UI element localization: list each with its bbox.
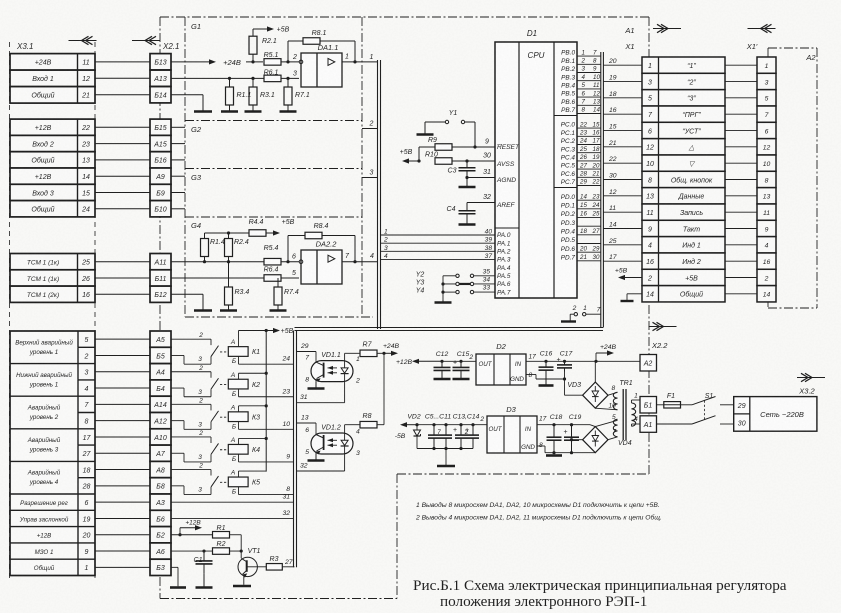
wire VD3 plus [594, 361, 596, 382]
wire VD4 ac1 pin 5 [595, 414, 617, 427]
svg-text:17: 17 [609, 254, 617, 261]
svg-text:1: 1 [634, 393, 638, 400]
node feedback junction G1 [286, 60, 289, 63]
wire 29 to VD1.1 [297, 343, 317, 361]
relay К2 contact switch [171, 365, 228, 397]
svg-text:Общий: Общий [34, 565, 55, 572]
relay К1 coil [228, 339, 260, 365]
node R2.4 bottom [227, 260, 230, 263]
svg-text:9: 9 [765, 226, 769, 233]
svg-text:29: 29 [592, 245, 600, 252]
svg-text:IN: IN [525, 426, 532, 433]
svg-text:уровень 1: уровень 1 [29, 381, 58, 388]
svg-text:А5: А5 [155, 337, 165, 344]
svg-text:D1: D1 [527, 29, 537, 38]
svg-text:R8.1: R8.1 [312, 30, 327, 37]
svg-text:22: 22 [81, 125, 90, 132]
svg-text:11: 11 [763, 210, 770, 217]
svg-text:PC.7: PC.7 [561, 179, 576, 186]
svg-text:13: 13 [646, 194, 654, 201]
svg-text:△: △ [688, 145, 695, 152]
wire G4 top rail [205, 233, 250, 239]
svg-text:R4.4: R4.4 [249, 219, 264, 226]
svg-text:7: 7 [305, 355, 309, 362]
relay К5 coil [228, 470, 260, 496]
capacitor C16 [539, 351, 554, 377]
ground Y2Y3Y4 [442, 300, 444, 303]
svg-text:4: 4 [648, 243, 652, 250]
svg-text:А: А [230, 339, 235, 346]
svg-text:Б3: Б3 [156, 565, 165, 572]
svg-text:ТСМ 1 (1к): ТСМ 1 (1к) [27, 260, 59, 267]
cable mark chevrons X3.2 [797, 377, 825, 379]
wire relay К2 coil A [239, 372, 268, 380]
svg-text:25: 25 [579, 146, 587, 153]
svg-text:А2: А2 [643, 361, 653, 368]
svg-text:G2: G2 [191, 125, 202, 134]
svg-text:Б10: Б10 [154, 207, 166, 214]
svg-text:PB.2: PB.2 [561, 66, 575, 73]
wire Б3 ground [170, 567, 186, 587]
svg-text:9: 9 [648, 226, 652, 233]
svg-text:13: 13 [763, 194, 771, 201]
svg-text:PD.0: PD.0 [561, 194, 576, 201]
wire VD4 minus rail [545, 438, 595, 454]
svg-text:17: 17 [539, 416, 547, 423]
svg-text:2: 2 [764, 275, 769, 282]
svg-text:3: 3 [198, 487, 202, 494]
resistor R7 [345, 342, 384, 361]
wire Б6 output 32 [171, 510, 294, 519]
svg-text:F1: F1 [667, 393, 675, 400]
svg-text:7: 7 [597, 307, 601, 314]
jumper Y1 [425, 110, 475, 147]
svg-text:уровень 4: уровень 4 [29, 479, 59, 486]
wire А11 input G4 [171, 261, 299, 263]
svg-text:16: 16 [609, 107, 617, 114]
svg-text:RESET: RESET [497, 144, 520, 151]
power +24В arrow R7 [382, 343, 399, 356]
svg-text:А: А [230, 404, 235, 411]
svg-text:31: 31 [483, 169, 491, 176]
svg-text:Инд 1: Инд 1 [682, 242, 701, 250]
svg-text:А11: А11 [154, 260, 167, 267]
svg-text:2 Выводы 4 микросхем DA1, DA2: 2 Выводы 4 микросхем DA1, DA2, 11 микрос… [415, 514, 662, 522]
connector X2.1 lower cells [150, 331, 171, 576]
svg-text:13: 13 [593, 99, 600, 106]
svg-text:VD1.1: VD1.1 [321, 352, 341, 359]
svg-text:4: 4 [634, 416, 638, 423]
svg-text:DA1.1: DA1.1 [318, 43, 339, 52]
wire VD3 ac1 pin 8 [608, 385, 618, 395]
svg-text:15: 15 [609, 124, 617, 131]
svg-text:А6: А6 [155, 549, 165, 556]
svg-text:PB.6: PB.6 [561, 99, 575, 106]
ground VD1.1 pin8 [315, 382, 317, 389]
resistor R10 [425, 152, 495, 165]
regulator D3 [479, 405, 546, 453]
svg-text:IN: IN [515, 361, 522, 368]
wire G1 output [342, 54, 378, 64]
svg-text:2: 2 [572, 305, 577, 312]
svg-text:12: 12 [593, 90, 600, 97]
node RESET junction [473, 145, 476, 148]
svg-text:+12В: +12В [35, 125, 52, 132]
power -5В arrow D3 out [395, 422, 487, 440]
regulator D2 [468, 342, 536, 385]
svg-text:5: 5 [582, 82, 586, 89]
svg-text:20: 20 [82, 533, 91, 540]
table X3.1 group1 [10, 54, 95, 104]
svg-text:G1: G1 [191, 22, 201, 31]
svg-text:8: 8 [529, 372, 533, 379]
svg-text:17: 17 [83, 435, 92, 442]
microcontroller D1 CPU box [495, 42, 577, 298]
svg-text:+5В: +5В [277, 27, 290, 34]
svg-text:32: 32 [282, 510, 290, 517]
wire 32 to VD1.2 pin3 [297, 454, 345, 471]
svg-text:D2: D2 [496, 342, 506, 351]
wire AREF [467, 202, 495, 204]
zener diode VD2 [407, 414, 420, 449]
wires bus to PA0-PA3 [381, 229, 496, 260]
svg-text:C3: C3 [448, 168, 457, 175]
node C3 top [465, 159, 468, 162]
node feedback junction G4 [286, 260, 289, 263]
resistor R2.1 [249, 36, 277, 62]
svg-text:8: 8 [648, 177, 652, 184]
svg-text:8: 8 [305, 377, 309, 384]
ground C12 [441, 377, 443, 380]
svg-text:R2: R2 [217, 541, 226, 548]
svg-text:R3: R3 [270, 556, 279, 563]
svg-text:3: 3 [198, 454, 202, 461]
svg-text:14: 14 [82, 174, 90, 181]
wires X3.1 to X2.1 lower [95, 339, 150, 567]
svg-text:“3”: “3” [687, 96, 696, 103]
svg-text:PB.0: PB.0 [561, 50, 575, 57]
node R3.1 top [251, 77, 254, 80]
svg-text:1: 1 [765, 63, 769, 70]
capacitor C15 [453, 351, 470, 377]
svg-text:12: 12 [82, 76, 90, 83]
svg-text:6: 6 [765, 128, 769, 135]
svg-text:R2.4: R2.4 [234, 239, 249, 246]
svg-text:+5В: +5В [685, 275, 698, 282]
svg-text:PA.4: PA.4 [497, 265, 511, 272]
switch S1 [657, 393, 734, 424]
svg-text:PD.4: PD.4 [561, 228, 576, 235]
capacitor C17 [556, 351, 572, 396]
svg-text:Общий: Общий [31, 206, 54, 214]
wire relay К1 coil A [238, 331, 240, 347]
svg-text:PC.2: PC.2 [561, 138, 576, 145]
svg-text:Б1: Б1 [644, 403, 653, 410]
svg-text:2: 2 [84, 353, 89, 360]
svg-text:9: 9 [593, 66, 597, 73]
wire A13 input [171, 77, 299, 79]
svg-text:11: 11 [609, 205, 616, 212]
svg-text:X2.2: X2.2 [651, 341, 668, 350]
wire А3 output 31 [171, 494, 294, 503]
wire TR1 pin4 to А1 [632, 416, 641, 426]
port PC pins [561, 121, 601, 186]
svg-text:Y3: Y3 [416, 280, 425, 287]
svg-text:R7.4: R7.4 [284, 289, 299, 296]
svg-text:8: 8 [286, 486, 290, 493]
svg-text:27: 27 [284, 559, 293, 566]
pin 2 inverting input circle [292, 54, 303, 64]
svg-text:+24В: +24В [223, 58, 241, 67]
svg-text:VT1: VT1 [248, 548, 261, 555]
svg-text:5: 5 [305, 449, 309, 456]
svg-text:18: 18 [83, 467, 91, 474]
svg-text:4: 4 [765, 243, 769, 250]
svg-text:Y1: Y1 [449, 110, 458, 117]
svg-text:X3.1: X3.1 [16, 42, 33, 51]
svg-text:Б5: Б5 [156, 353, 165, 360]
svg-text:21: 21 [592, 171, 600, 178]
wire relay К4 coil B output 9 [239, 453, 294, 462]
power +12В arrow D2 out [396, 359, 476, 366]
svg-text:+: + [453, 427, 457, 434]
svg-text:Инд 2: Инд 2 [682, 258, 701, 266]
op-amp DA2.2 [301, 240, 342, 285]
svg-text:PD.2: PD.2 [561, 211, 576, 218]
svg-text:23: 23 [579, 130, 587, 137]
svg-text:G4: G4 [191, 221, 201, 230]
svg-text:2: 2 [479, 416, 484, 423]
capacitor group C13 C14 [453, 414, 480, 449]
relay К2 coil [228, 372, 260, 398]
svg-text:“УСТ”: “УСТ” [682, 128, 701, 135]
svg-text:R9: R9 [428, 137, 437, 144]
svg-text:6: 6 [85, 500, 89, 507]
svg-text:12: 12 [646, 145, 654, 152]
svg-text:12: 12 [609, 189, 617, 196]
wire А6 base [171, 550, 213, 552]
svg-text:8: 8 [582, 107, 586, 114]
svg-text:5: 5 [85, 337, 89, 344]
svg-text:R2.1: R2.1 [262, 38, 277, 45]
svg-text:OUT: OUT [478, 361, 492, 368]
svg-text:А1: А1 [643, 422, 653, 429]
svg-text:AGND: AGND [496, 177, 516, 184]
svg-text:А10: А10 [153, 435, 167, 442]
bus group line horizontal bottom [295, 328, 604, 331]
svg-text:Б6: Б6 [156, 516, 165, 523]
svg-text:+12В: +12В [396, 359, 413, 366]
svg-text:19: 19 [83, 516, 91, 523]
svg-text:PA.1: PA.1 [497, 240, 511, 247]
ground Б12 wire [171, 294, 212, 310]
svg-text:1: 1 [384, 229, 388, 236]
svg-text:R1: R1 [217, 525, 226, 532]
svg-text:К1: К1 [252, 349, 260, 356]
svg-text:23: 23 [281, 388, 290, 395]
pin AREF [496, 202, 516, 209]
svg-text:2: 2 [198, 463, 203, 470]
cable mark chevrons A1 right [653, 28, 681, 30]
svg-text:23: 23 [592, 193, 600, 200]
svg-text:PB.5: PB.5 [561, 91, 575, 98]
wire D2 in rail [526, 360, 640, 362]
svg-text:Сеть ~220В: Сеть ~220В [760, 410, 804, 419]
svg-text:Б11: Б11 [155, 276, 167, 283]
svg-text:18: 18 [580, 228, 587, 235]
resistor R9 [419, 137, 495, 150]
svg-text:31: 31 [282, 494, 290, 501]
svg-text:X1: X1 [624, 42, 634, 51]
svg-text:C16: C16 [540, 351, 553, 358]
bus group line vertical [378, 60, 381, 329]
svg-text:X2.1: X2.1 [162, 42, 179, 51]
svg-text:R3.1: R3.1 [260, 92, 275, 99]
svg-text:К3: К3 [252, 414, 260, 421]
svg-text:30: 30 [593, 254, 600, 261]
svg-text:Вход 2: Вход 2 [32, 140, 54, 148]
svg-text:Нижний аварийный: Нижний аварийный [16, 372, 72, 379]
ground VD1.2 pin5 [315, 454, 317, 461]
svg-text:R3.4: R3.4 [235, 289, 250, 296]
svg-text:А4: А4 [155, 370, 165, 377]
svg-text:VD2: VD2 [407, 414, 420, 421]
table X3.1 group2 [10, 119, 95, 217]
svg-text:2: 2 [468, 354, 473, 361]
pin 6 inverting input circle [292, 254, 303, 264]
relay К3 coil [228, 404, 260, 430]
svg-text:Общий: Общий [680, 291, 703, 299]
svg-text:29: 29 [300, 343, 309, 350]
svg-text:23: 23 [81, 141, 90, 148]
svg-text:А1: А1 [624, 26, 634, 35]
boundary dashed line left of X3.1 [9, 42, 11, 580]
jumpers Y2 Y3 Y4 [416, 268, 495, 300]
svg-text:32: 32 [300, 463, 308, 470]
svg-text:3: 3 [198, 389, 202, 396]
svg-text:19: 19 [609, 75, 617, 82]
wire relay К5 coil A [239, 471, 267, 477]
wire relay К5 coil B output 8 [239, 486, 294, 495]
ground R3.1 [252, 105, 254, 112]
svg-text:3: 3 [765, 79, 769, 86]
node R1.1 top [228, 77, 231, 80]
svg-text:G3: G3 [191, 173, 202, 182]
relay К3 contact switch [171, 397, 228, 429]
wire 13 to VD1.2 [297, 415, 317, 434]
svg-text:16: 16 [580, 211, 587, 218]
svg-text:TR1: TR1 [619, 380, 632, 387]
svg-text:3: 3 [198, 356, 202, 363]
svg-text:30: 30 [738, 420, 746, 427]
resistor R8 [345, 413, 384, 433]
svg-text:3: 3 [356, 450, 360, 457]
wire R7 to R8 vertical [383, 353, 385, 424]
node R7.4 top [276, 276, 279, 279]
svg-text:17: 17 [529, 354, 537, 361]
svg-text:24: 24 [281, 356, 290, 363]
svg-text:3: 3 [582, 66, 586, 73]
svg-text:VD1.2: VD1.2 [321, 425, 341, 432]
svg-text:PB.7: PB.7 [561, 107, 575, 114]
node C3 bottom [465, 176, 468, 179]
svg-text:2: 2 [647, 275, 652, 282]
connector X2.2 cell А1 [640, 416, 657, 433]
svg-text:24: 24 [81, 207, 90, 214]
svg-text:16: 16 [593, 130, 600, 137]
svg-text:Б: Б [232, 489, 236, 496]
svg-text:24: 24 [592, 202, 600, 209]
svg-text:Б13: Б13 [154, 60, 166, 67]
svg-text:3: 3 [198, 421, 202, 428]
ground C4 [466, 222, 468, 225]
svg-text:положения электронного РЭП-1: положения электронного РЭП-1 [440, 593, 647, 610]
ground below CPU [561, 314, 576, 321]
svg-text:2: 2 [369, 121, 374, 128]
wire Б11 input G4 [171, 277, 299, 279]
svg-text:14: 14 [580, 193, 587, 200]
power +5В arrow X1 row14 [615, 267, 642, 280]
svg-text:C15: C15 [457, 351, 470, 358]
svg-text:+24В: +24В [383, 343, 400, 350]
svg-text:6: 6 [292, 254, 296, 261]
wires X3.1 to X2.1 upper [95, 62, 150, 294]
wire minus rail and ground [417, 447, 473, 466]
svg-text:AVSS: AVSS [496, 161, 515, 168]
power +24В arrow X2.2 [594, 344, 616, 363]
svg-text:27: 27 [82, 451, 92, 458]
svg-text:Аварийный: Аварийный [27, 470, 61, 477]
svg-text:PA.5: PA.5 [497, 273, 511, 280]
svg-text:+: + [453, 359, 457, 366]
svg-text:8: 8 [85, 419, 89, 426]
resistor R5.4 [264, 245, 281, 265]
svg-text:1: 1 [356, 356, 360, 363]
svg-text:R8.4: R8.4 [314, 223, 329, 230]
svg-text:20: 20 [592, 162, 600, 169]
svg-text:19: 19 [593, 154, 600, 161]
svg-text:16: 16 [646, 259, 654, 266]
svg-text:PC.6: PC.6 [561, 171, 576, 178]
svg-text:Аварийный: Аварийный [27, 437, 61, 444]
wires X1 to X1p [725, 65, 757, 294]
svg-text:Общий: Общий [31, 92, 54, 100]
G-block column dash-dot box [185, 17, 373, 317]
svg-text:Общий: Общий [31, 157, 54, 165]
wire AGND [467, 177, 495, 179]
svg-text:20: 20 [608, 58, 617, 65]
svg-text:А: А [230, 470, 235, 477]
wire relay К3 coil B output 10 [239, 421, 294, 430]
pin AGND [496, 177, 516, 184]
svg-text:21: 21 [579, 254, 587, 261]
svg-text:А12: А12 [153, 419, 167, 426]
resistor R2 [213, 541, 243, 554]
svg-text:5: 5 [292, 270, 296, 277]
ground C15 [460, 377, 462, 380]
svg-text:Б8: Б8 [156, 484, 165, 491]
pin AVSS [496, 161, 515, 168]
svg-text:40: 40 [485, 229, 493, 236]
svg-text:16: 16 [763, 259, 771, 266]
svg-text:R5.4: R5.4 [264, 245, 279, 252]
resistor R3.4 [225, 262, 250, 305]
svg-text:C19: C19 [569, 414, 582, 421]
svg-text:PA.7: PA.7 [497, 289, 511, 296]
svg-text:Верхний аварийный: Верхний аварийный [15, 339, 73, 346]
wires inputs G3 [171, 176, 185, 209]
ground AGND [466, 178, 468, 188]
